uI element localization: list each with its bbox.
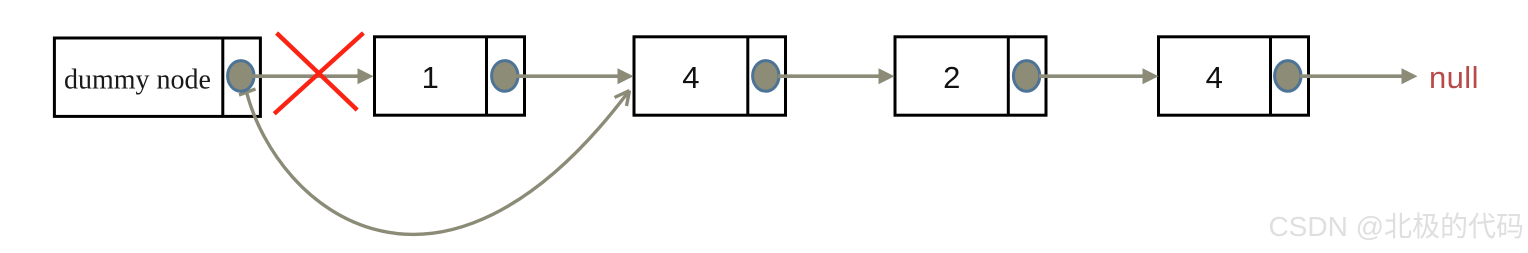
- svg-text:CSDN @北极的代码: CSDN @北极的代码: [1268, 211, 1524, 242]
- svg-text:null: null: [1429, 60, 1479, 95]
- svg-text:1: 1: [422, 60, 439, 95]
- svg-text:2: 2: [943, 60, 960, 95]
- svg-text:dummy node: dummy node: [64, 65, 211, 96]
- svg-text:4: 4: [1206, 60, 1223, 95]
- svg-text:4: 4: [682, 60, 699, 95]
